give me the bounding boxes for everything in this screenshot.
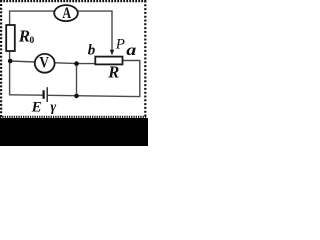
svg-text:a: a — [126, 41, 136, 59]
junction dot middle bottom — [74, 94, 79, 99]
svg-text:A: A — [62, 6, 71, 23]
svg-text:R: R — [18, 27, 30, 46]
svg-text:b: b — [88, 43, 96, 59]
voltmeter V — [35, 54, 55, 73]
dotted border right — [144, 1, 146, 118]
svg-text:0: 0 — [30, 36, 35, 46]
wire: top horizontal — [9, 10, 113, 12]
wire: voltmeter branch (left wire to rheostat) — [10, 61, 96, 64]
page background — [0, 0, 148, 146]
wire: slider vertical (P) — [111, 11, 113, 51]
svg-text:P: P — [115, 36, 125, 52]
wire: bottom horizontal right of battery — [48, 95, 141, 96]
svg-text:γ: γ — [50, 100, 56, 115]
wire: rheostat right terminal — [123, 61, 140, 97]
svg-text:E: E — [31, 99, 42, 115]
dotted border left — [0, 0, 2, 117]
battery cell: long thin plate — [46, 87, 48, 102]
wire: left vertical — [9, 11, 11, 95]
battery cell: short thick plate — [42, 90, 44, 99]
wire: middle vertical — [76, 64, 78, 96]
junction dot middle top — [74, 61, 79, 66]
svg-text:R: R — [107, 63, 119, 82]
resistor R0 box — [6, 25, 15, 51]
dotted border top — [0, 0, 146, 2]
rheostat R box — [95, 57, 122, 65]
wire: bottom horizontal left of battery — [9, 94, 43, 96]
ammeter A — [54, 5, 78, 21]
svg-text:V: V — [39, 54, 49, 71]
junction dot left — [8, 59, 13, 64]
slider arrowhead P — [110, 50, 114, 56]
dotted border bottom — [0, 116, 147, 118]
black bottom band — [0, 118, 148, 146]
